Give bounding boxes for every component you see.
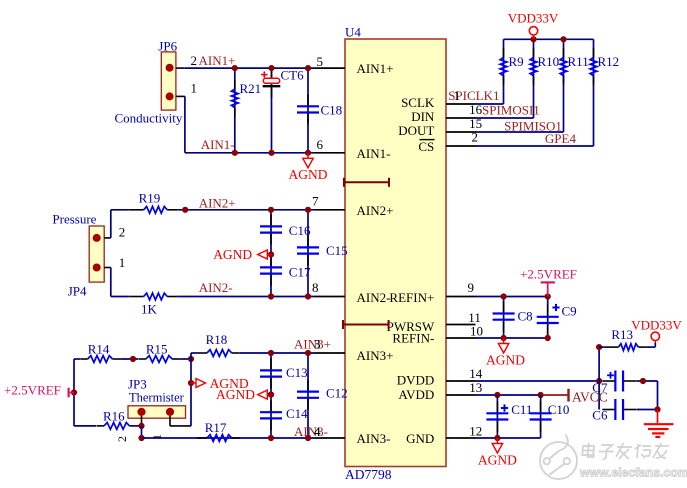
svg-text:1: 1 xyxy=(454,88,461,103)
svg-text:AGND: AGND xyxy=(213,247,252,262)
svg-text:+2.5VREF: +2.5VREF xyxy=(520,267,577,282)
svg-text:CS: CS xyxy=(418,139,434,154)
svg-text:R11: R11 xyxy=(568,54,589,69)
svg-text:R14: R14 xyxy=(88,341,110,356)
svg-text:AIN3+: AIN3+ xyxy=(294,337,331,352)
svg-text:11: 11 xyxy=(468,310,481,325)
svg-text:1: 1 xyxy=(150,434,164,440)
svg-text:C12: C12 xyxy=(326,386,348,401)
svg-text:AVDD: AVDD xyxy=(398,387,434,402)
svg-text:JP6: JP6 xyxy=(158,39,177,54)
svg-text:AIN2-: AIN2- xyxy=(357,290,391,305)
svg-text:AIN2+: AIN2+ xyxy=(357,203,394,218)
svg-text:9: 9 xyxy=(468,280,475,295)
svg-text:AIN1-: AIN1- xyxy=(201,137,235,152)
svg-text:C11: C11 xyxy=(511,402,532,417)
svg-text:JP3: JP3 xyxy=(128,376,147,391)
svg-text:6: 6 xyxy=(317,137,324,152)
svg-text:VDD33V: VDD33V xyxy=(631,317,682,332)
svg-text:AIN3-: AIN3- xyxy=(357,431,391,446)
svg-text:C10: C10 xyxy=(548,402,570,417)
svg-text:13: 13 xyxy=(469,380,482,395)
svg-text:Conductivity: Conductivity xyxy=(115,110,183,125)
svg-text:AGND: AGND xyxy=(478,452,517,467)
svg-text:R17: R17 xyxy=(205,420,227,435)
svg-text:Pressure: Pressure xyxy=(52,212,96,227)
svg-text:U4: U4 xyxy=(345,24,361,39)
svg-text:2: 2 xyxy=(115,436,129,442)
svg-text:Thermister: Thermister xyxy=(129,390,185,404)
svg-text:VDD33V: VDD33V xyxy=(508,11,559,26)
svg-text:12: 12 xyxy=(469,423,482,438)
svg-text:2: 2 xyxy=(191,53,198,68)
svg-text:AGND: AGND xyxy=(216,387,255,402)
svg-text:DIN: DIN xyxy=(411,109,435,124)
svg-text:www.elecfans.com: www.elecfans.com xyxy=(579,466,687,480)
svg-text:C15: C15 xyxy=(326,243,348,258)
svg-text:C9: C9 xyxy=(562,303,577,318)
svg-text:AGND: AGND xyxy=(289,167,328,182)
svg-text:1: 1 xyxy=(191,81,198,96)
svg-text:C6: C6 xyxy=(592,407,608,422)
svg-text:GND: GND xyxy=(406,431,434,446)
svg-text:R15: R15 xyxy=(146,341,168,356)
svg-text:R16: R16 xyxy=(103,408,125,423)
svg-text:C8: C8 xyxy=(518,308,533,323)
svg-text:5: 5 xyxy=(317,54,324,69)
svg-text:1K: 1K xyxy=(141,302,158,317)
svg-text:10: 10 xyxy=(470,324,483,339)
svg-text:AIN1+: AIN1+ xyxy=(357,61,394,76)
svg-text:CT6: CT6 xyxy=(281,68,305,83)
svg-text:AIN3-: AIN3- xyxy=(294,424,328,439)
svg-text:R19: R19 xyxy=(139,191,161,206)
svg-text:AIN1+: AIN1+ xyxy=(199,53,236,68)
svg-text:DOUT: DOUT xyxy=(398,123,434,138)
svg-text:SPIMOSI1: SPIMOSI1 xyxy=(482,103,540,118)
svg-text:14: 14 xyxy=(469,366,483,381)
svg-text:REFIN-: REFIN- xyxy=(392,331,434,346)
svg-text:R13: R13 xyxy=(611,327,633,342)
svg-text:DVDD: DVDD xyxy=(397,372,435,387)
svg-text:R18: R18 xyxy=(206,332,228,347)
svg-text:AD7798: AD7798 xyxy=(345,467,392,482)
svg-text:C14: C14 xyxy=(286,406,308,421)
svg-text:+2.5VREF: +2.5VREF xyxy=(4,383,61,398)
svg-text:R12: R12 xyxy=(598,54,620,69)
svg-text:8: 8 xyxy=(312,280,319,295)
svg-text:AIN2+: AIN2+ xyxy=(199,196,236,211)
svg-text:R9: R9 xyxy=(509,54,524,69)
svg-text:R21: R21 xyxy=(240,81,262,96)
svg-text:AVCC: AVCC xyxy=(572,390,608,405)
svg-text:C18: C18 xyxy=(321,103,343,118)
svg-text:R10: R10 xyxy=(538,54,560,69)
svg-text:2: 2 xyxy=(119,225,126,240)
svg-text:C13: C13 xyxy=(286,365,308,380)
svg-text:3: 3 xyxy=(314,337,321,352)
svg-text:AIN3+: AIN3+ xyxy=(357,348,394,363)
svg-text:REFIN+: REFIN+ xyxy=(389,290,434,305)
svg-text:AIN1-: AIN1- xyxy=(357,146,391,161)
svg-text:SCLK: SCLK xyxy=(401,95,435,110)
svg-text:7: 7 xyxy=(312,194,319,209)
svg-text:AGND: AGND xyxy=(486,353,525,368)
svg-text:1: 1 xyxy=(119,255,126,270)
svg-text:AIN2-: AIN2- xyxy=(199,280,233,295)
svg-text:JP4: JP4 xyxy=(68,284,87,299)
svg-text:GPE4: GPE4 xyxy=(545,131,577,146)
svg-text:4: 4 xyxy=(314,424,321,439)
